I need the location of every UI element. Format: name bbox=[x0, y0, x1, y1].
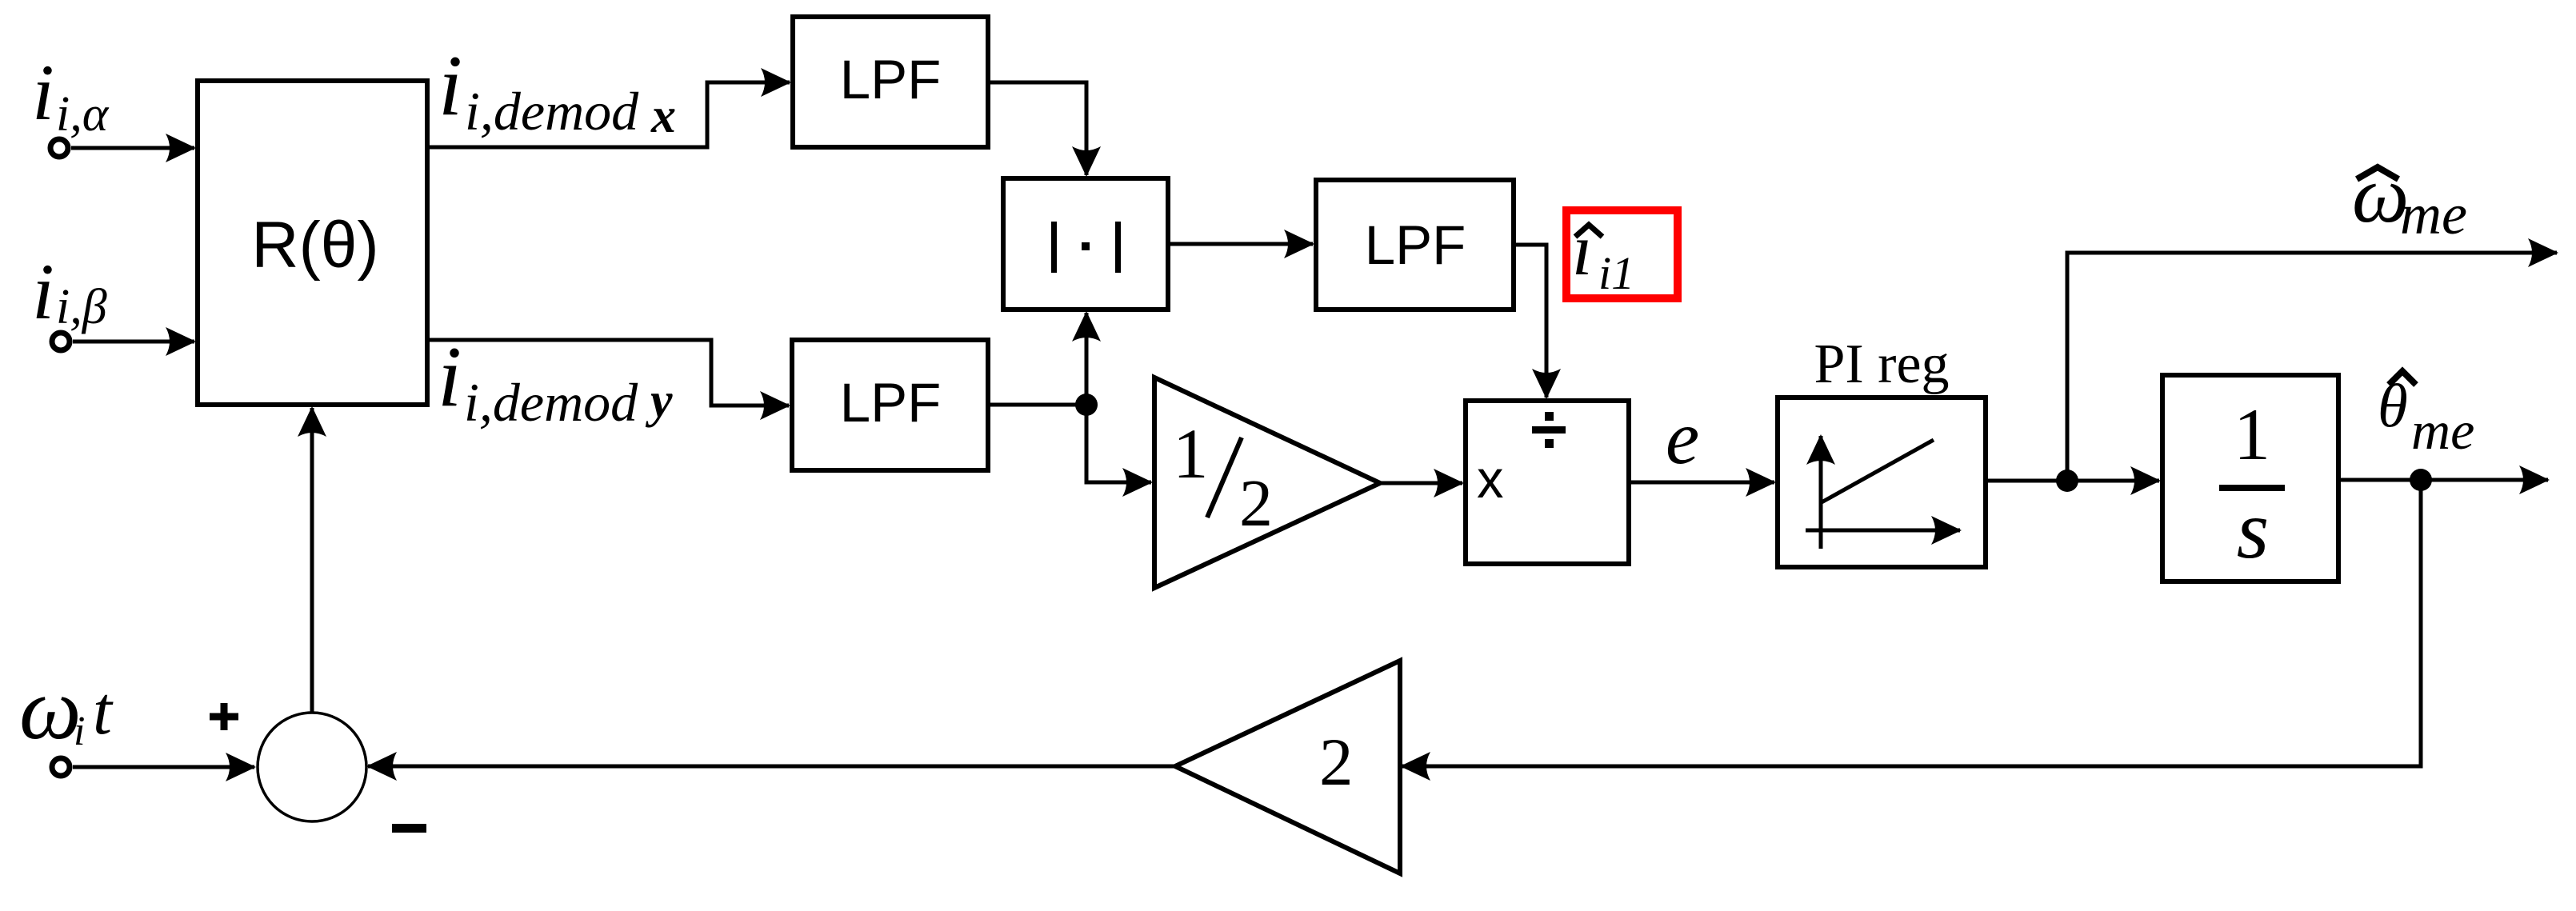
svg-text:x: x bbox=[1477, 450, 1504, 509]
svg-text:ı: ı bbox=[1572, 209, 1593, 290]
wire LPF2 to junction bbox=[988, 403, 1086, 407]
block divide bbox=[1466, 401, 1629, 564]
svg-text:1: 1 bbox=[1173, 415, 1209, 493]
wire half gain to divide bbox=[1380, 481, 1462, 485]
svg-text:e: e bbox=[1666, 395, 1699, 480]
block integrator 1/s bbox=[2162, 375, 2338, 581]
wire input alpha to R block bbox=[71, 146, 194, 150]
label i_i,demod_y bbox=[438, 330, 673, 433]
wire summing junction up to R block bbox=[310, 408, 314, 713]
svg-text:i,demod: i,demod bbox=[464, 372, 638, 433]
wire LPF1 to abs block bbox=[988, 82, 1086, 175]
svg-text:LPF: LPF bbox=[840, 372, 942, 434]
label i_i,beta bbox=[32, 247, 107, 336]
svg-text:LPF: LPF bbox=[840, 49, 942, 110]
svg-text:1: 1 bbox=[2234, 394, 2270, 475]
svg-text:i: i bbox=[32, 48, 54, 137]
svg-text:me: me bbox=[2400, 182, 2467, 246]
label i_i,demod_x bbox=[438, 38, 676, 143]
wire junction up into abs bottom bbox=[1085, 313, 1089, 405]
svg-text:i,β: i,β bbox=[56, 280, 107, 334]
svg-text:2: 2 bbox=[1239, 466, 1273, 541]
block PI regulator bbox=[1778, 398, 1986, 567]
summing junction circle bbox=[258, 713, 366, 821]
svg-text:me: me bbox=[2411, 400, 2474, 461]
svg-text:i: i bbox=[32, 247, 54, 336]
wire junction up and right omega output bbox=[2067, 253, 2557, 481]
node input terminal omega_i_t bbox=[52, 758, 70, 776]
label omega_hat_me bbox=[2352, 150, 2467, 246]
wire gain2 to summing junction bbox=[368, 765, 1175, 769]
red highlight box bbox=[1566, 210, 1678, 298]
wire junction to half gain bbox=[1086, 405, 1151, 482]
svg-text:2: 2 bbox=[1319, 725, 1354, 800]
wire omega_i t to summing junction bbox=[73, 765, 254, 769]
svg-text:i,α: i,α bbox=[56, 87, 110, 142]
wire LPF3 down to divide block bbox=[1514, 245, 1546, 398]
label minus bbox=[392, 824, 426, 833]
svg-text:i1: i1 bbox=[1598, 247, 1634, 299]
node input terminal i_i_beta bbox=[52, 333, 70, 350]
wire divide to PI with label e bbox=[1629, 481, 1774, 485]
svg-text:LPF: LPF bbox=[1365, 214, 1466, 276]
block abs |.| bbox=[1003, 178, 1168, 310]
svg-text:ω: ω bbox=[19, 660, 82, 757]
svg-text:t: t bbox=[93, 672, 114, 749]
node input terminal i_i_alpha bbox=[50, 139, 68, 157]
junction dot LPF2 output bbox=[1075, 394, 1098, 416]
svg-text:PI reg: PI reg bbox=[1814, 334, 1949, 395]
gain half triangle bbox=[1154, 378, 1380, 588]
wire feedback theta down and left to gain2 bbox=[1402, 480, 2421, 766]
wire PI to integrator bbox=[1986, 479, 2159, 483]
svg-text:i: i bbox=[74, 709, 85, 754]
svg-text:R(θ): R(θ) bbox=[251, 209, 378, 282]
block R(theta) rotation matrix bbox=[198, 81, 427, 405]
svg-text:s: s bbox=[2237, 484, 2269, 576]
label i_hat_i1 bbox=[1572, 209, 1634, 299]
block LPF2 bbox=[792, 340, 988, 470]
svg-text:i: i bbox=[438, 330, 462, 425]
label theta_hat_me bbox=[2378, 371, 2474, 461]
junction dot theta output bbox=[2410, 469, 2432, 491]
wire R output y to LPF2 bbox=[427, 340, 789, 406]
label omega_i t bbox=[19, 660, 114, 757]
svg-text:y: y bbox=[645, 374, 673, 428]
junction dot PI output bbox=[2056, 469, 2078, 492]
block LPF3 bbox=[1316, 180, 1514, 310]
block LPF1 bbox=[793, 17, 988, 147]
svg-text:x: x bbox=[650, 89, 676, 143]
gain 2 triangle bbox=[1175, 661, 1400, 873]
wire integrator output theta bbox=[2338, 478, 2548, 482]
wire input beta to R block bbox=[73, 340, 194, 344]
label i_i,alpha bbox=[32, 48, 110, 142]
wire abs to LPF3 bbox=[1168, 242, 1313, 246]
wire R output x to LPF1 bbox=[427, 82, 790, 147]
svg-text:i: i bbox=[438, 38, 462, 134]
svg-text:i,demod: i,demod bbox=[465, 81, 639, 142]
label plus bbox=[210, 703, 238, 730]
